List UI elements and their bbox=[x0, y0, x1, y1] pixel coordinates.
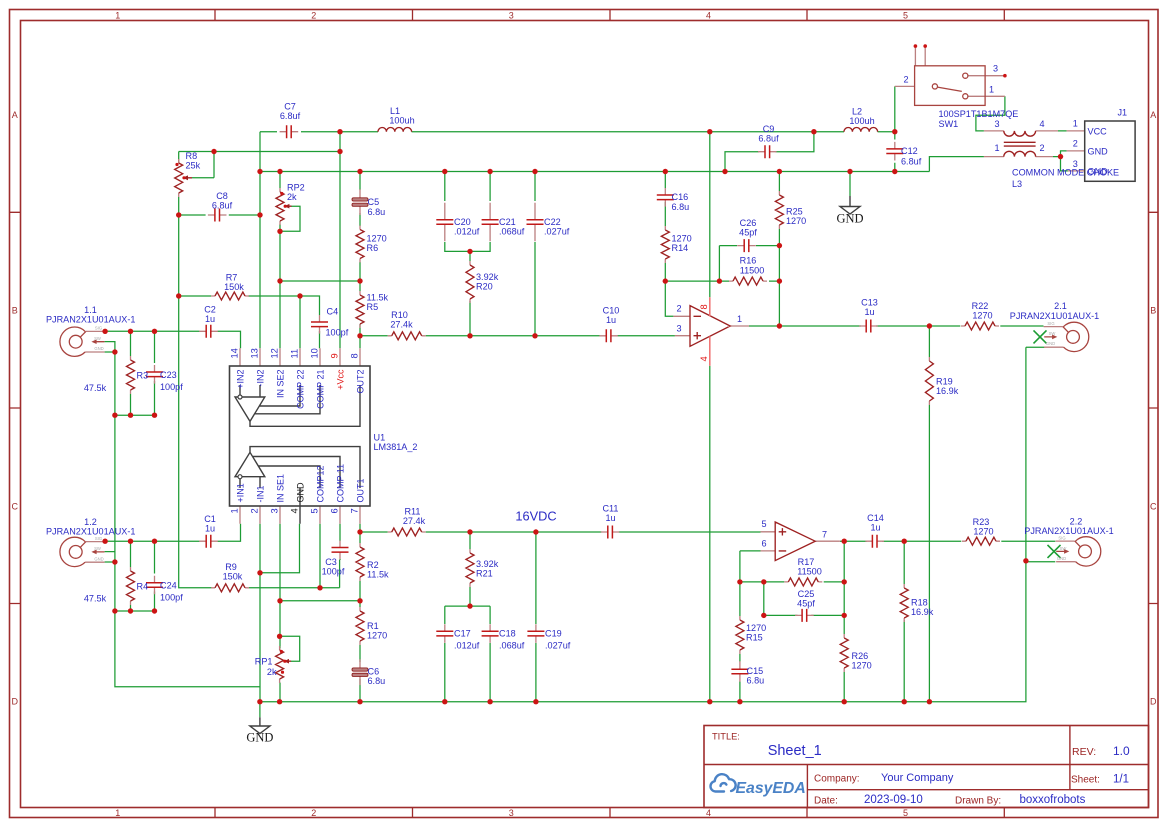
svg-text:1: 1 bbox=[115, 808, 120, 818]
svg-text:1270: 1270 bbox=[972, 311, 992, 321]
svg-text:2: 2 bbox=[676, 304, 681, 314]
svg-text:4: 4 bbox=[1039, 119, 1044, 129]
svg-text:4: 4 bbox=[699, 356, 709, 361]
svg-text:1u: 1u bbox=[870, 523, 880, 533]
svg-text:2023-09-10: 2023-09-10 bbox=[864, 794, 923, 806]
svg-text:L1: L1 bbox=[390, 106, 400, 116]
svg-text:C20: C20 bbox=[454, 217, 471, 227]
svg-text:3: 3 bbox=[676, 324, 681, 334]
svg-text:R5: R5 bbox=[367, 302, 379, 312]
svg-text:R7: R7 bbox=[226, 273, 238, 283]
svg-text:C18: C18 bbox=[499, 629, 516, 639]
svg-text:C3: C3 bbox=[325, 557, 337, 567]
svg-text:R20: R20 bbox=[476, 282, 493, 292]
svg-text:7: 7 bbox=[822, 529, 827, 539]
svg-text:.012uf: .012uf bbox=[454, 641, 480, 651]
svg-text:R14: R14 bbox=[672, 243, 689, 253]
svg-text:+Vcc: +Vcc bbox=[335, 369, 345, 390]
svg-text:C6: C6 bbox=[368, 667, 380, 677]
svg-text:2k: 2k bbox=[287, 192, 297, 202]
svg-text:C22: C22 bbox=[544, 217, 561, 227]
svg-text:GND: GND bbox=[1046, 341, 1055, 346]
svg-text:L3: L3 bbox=[1012, 179, 1022, 189]
svg-text:C1: C1 bbox=[204, 514, 216, 524]
svg-text:C19: C19 bbox=[545, 629, 562, 639]
svg-text:GND: GND bbox=[1088, 146, 1109, 156]
svg-text:1: 1 bbox=[1073, 119, 1078, 129]
svg-text:.027uf: .027uf bbox=[544, 227, 570, 237]
svg-text:6.8uf: 6.8uf bbox=[280, 111, 301, 121]
svg-text:C12: C12 bbox=[901, 146, 918, 156]
svg-text:5: 5 bbox=[903, 808, 908, 818]
svg-text:47.5k: 47.5k bbox=[84, 594, 107, 604]
svg-text:IN SE1: IN SE1 bbox=[275, 474, 285, 503]
svg-text:6.8u: 6.8u bbox=[747, 676, 765, 686]
svg-text:11.5k: 11.5k bbox=[367, 293, 389, 303]
svg-text:150k: 150k bbox=[223, 572, 243, 582]
svg-text:10: 10 bbox=[310, 348, 320, 358]
svg-text:16.9k: 16.9k bbox=[911, 607, 934, 617]
svg-text:1270: 1270 bbox=[367, 631, 387, 641]
svg-text:6.8u: 6.8u bbox=[368, 676, 386, 686]
svg-text:100pf: 100pf bbox=[322, 567, 345, 577]
svg-text:3: 3 bbox=[1073, 159, 1078, 169]
svg-text:3: 3 bbox=[509, 808, 514, 818]
svg-text:GND: GND bbox=[295, 482, 305, 503]
svg-text:45pf: 45pf bbox=[739, 228, 757, 238]
svg-text:COMP 21: COMP 21 bbox=[315, 370, 325, 409]
svg-text:+IN1: +IN1 bbox=[235, 483, 245, 502]
svg-text:R11: R11 bbox=[404, 507, 420, 517]
svg-text:R15: R15 bbox=[746, 633, 763, 643]
svg-text:C23: C23 bbox=[160, 370, 177, 380]
svg-text:5: 5 bbox=[310, 508, 320, 513]
svg-text:SIG: SIG bbox=[95, 326, 102, 331]
svg-text:C2: C2 bbox=[204, 305, 216, 315]
svg-text:GND: GND bbox=[836, 212, 863, 226]
svg-text:9: 9 bbox=[330, 353, 340, 358]
svg-text:1: 1 bbox=[989, 85, 994, 95]
svg-text:1.2: 1.2 bbox=[84, 517, 97, 527]
svg-text:A: A bbox=[12, 110, 18, 120]
svg-text:3: 3 bbox=[994, 119, 999, 129]
svg-text:VCC: VCC bbox=[1088, 126, 1108, 136]
svg-text:GND: GND bbox=[246, 731, 273, 745]
svg-text:2: 2 bbox=[311, 808, 316, 818]
svg-text:B: B bbox=[12, 306, 18, 316]
svg-text:2: 2 bbox=[903, 75, 908, 85]
svg-text:R19: R19 bbox=[936, 377, 953, 387]
svg-text:PJRAN2X1U01AUX-1: PJRAN2X1U01AUX-1 bbox=[1024, 526, 1113, 536]
svg-text:U1: U1 bbox=[374, 433, 386, 443]
svg-text:8: 8 bbox=[699, 304, 709, 309]
svg-text:L2: L2 bbox=[852, 107, 862, 117]
svg-text:.012uf: .012uf bbox=[454, 227, 480, 237]
svg-text:1270: 1270 bbox=[367, 234, 387, 244]
svg-text:3: 3 bbox=[993, 64, 998, 74]
svg-text:47.5k: 47.5k bbox=[84, 383, 107, 393]
svg-text:REV:: REV: bbox=[1072, 746, 1096, 758]
svg-text:D: D bbox=[1150, 697, 1157, 707]
svg-text:5: 5 bbox=[903, 10, 908, 20]
svg-text:Company:: Company: bbox=[814, 774, 860, 785]
svg-text:4: 4 bbox=[706, 808, 711, 818]
svg-text:R3: R3 bbox=[137, 371, 149, 381]
svg-text:8: 8 bbox=[350, 353, 360, 358]
svg-text:PJRAN2X1U01AUX-1: PJRAN2X1U01AUX-1 bbox=[1010, 311, 1099, 321]
svg-text:C: C bbox=[11, 502, 18, 512]
svg-text:11500: 11500 bbox=[797, 567, 822, 577]
svg-text:LM381A_2: LM381A_2 bbox=[374, 442, 418, 452]
svg-text:2.2: 2.2 bbox=[1070, 517, 1083, 527]
svg-text:2: 2 bbox=[311, 10, 316, 20]
svg-text:R22: R22 bbox=[972, 301, 989, 311]
svg-text:SIG: SIG bbox=[95, 536, 102, 541]
svg-text:1u: 1u bbox=[864, 307, 874, 317]
svg-text:GND: GND bbox=[94, 556, 103, 561]
svg-text:SW1: SW1 bbox=[939, 119, 959, 129]
svg-text:GND: GND bbox=[1088, 166, 1109, 176]
svg-text:A: A bbox=[1150, 110, 1156, 120]
svg-text:7: 7 bbox=[350, 508, 360, 513]
svg-text:6.8uf: 6.8uf bbox=[901, 157, 922, 167]
svg-text:+IN2: +IN2 bbox=[235, 370, 245, 389]
svg-text:J1: J1 bbox=[1118, 107, 1128, 117]
svg-text:C21: C21 bbox=[499, 217, 516, 227]
svg-text:R25: R25 bbox=[786, 207, 803, 217]
svg-text:IN SE2: IN SE2 bbox=[275, 370, 285, 399]
svg-text:C26: C26 bbox=[740, 218, 757, 228]
svg-text:25k: 25k bbox=[186, 161, 201, 171]
svg-text:3: 3 bbox=[270, 508, 280, 513]
svg-text:C4: C4 bbox=[327, 307, 339, 317]
svg-text:1: 1 bbox=[230, 508, 240, 513]
svg-text:R17: R17 bbox=[798, 557, 815, 567]
svg-text:3.92k: 3.92k bbox=[476, 272, 499, 282]
svg-text:6.8u: 6.8u bbox=[672, 202, 690, 212]
svg-text:SIG: SIG bbox=[1058, 536, 1065, 541]
svg-text:150k: 150k bbox=[224, 282, 244, 292]
svg-text:C8: C8 bbox=[216, 191, 228, 201]
svg-text:C15: C15 bbox=[747, 666, 764, 676]
svg-text:PJRAN2X1U01AUX-1: PJRAN2X1U01AUX-1 bbox=[46, 527, 135, 537]
svg-text:45pf: 45pf bbox=[797, 599, 815, 609]
svg-text:Sheet_1: Sheet_1 bbox=[768, 743, 822, 759]
svg-text:1u: 1u bbox=[205, 314, 215, 324]
svg-text:1u: 1u bbox=[205, 524, 215, 534]
svg-text:4: 4 bbox=[290, 508, 300, 513]
svg-text:R16: R16 bbox=[740, 256, 757, 266]
svg-text:1: 1 bbox=[737, 314, 742, 324]
svg-text:Your Company: Your Company bbox=[881, 772, 954, 784]
svg-text:C11: C11 bbox=[602, 504, 618, 514]
svg-text:6.8uf: 6.8uf bbox=[758, 134, 779, 144]
svg-text:R23: R23 bbox=[973, 517, 990, 527]
svg-text:R6: R6 bbox=[367, 243, 379, 253]
svg-text:OUT1: OUT1 bbox=[355, 478, 365, 502]
svg-text:R4: R4 bbox=[137, 582, 149, 592]
svg-text:C5: C5 bbox=[368, 197, 380, 207]
svg-text:SW: SW bbox=[94, 336, 101, 341]
svg-text:1/1: 1/1 bbox=[1113, 774, 1129, 786]
svg-text:COMP 11: COMP 11 bbox=[335, 464, 345, 503]
svg-text:100pf: 100pf bbox=[160, 593, 183, 603]
svg-text:1u: 1u bbox=[605, 513, 615, 523]
svg-text:1270: 1270 bbox=[672, 234, 692, 244]
svg-text:D: D bbox=[11, 697, 18, 707]
svg-text:100pf: 100pf bbox=[160, 382, 183, 392]
svg-text:3: 3 bbox=[509, 10, 514, 20]
svg-text:SIG: SIG bbox=[1047, 321, 1054, 326]
svg-text:2k: 2k bbox=[267, 667, 277, 677]
svg-text:13: 13 bbox=[250, 348, 260, 358]
svg-text:1u: 1u bbox=[606, 315, 616, 325]
svg-text:COMP 22: COMP 22 bbox=[295, 370, 305, 409]
svg-text:3.92k: 3.92k bbox=[476, 559, 499, 569]
svg-text:1: 1 bbox=[115, 10, 120, 20]
svg-text:1.1: 1.1 bbox=[84, 305, 97, 315]
svg-text:COMP12: COMP12 bbox=[315, 465, 325, 502]
svg-text:2: 2 bbox=[1073, 139, 1078, 149]
svg-text:Sheet:: Sheet: bbox=[1071, 775, 1100, 786]
svg-text:16.9k: 16.9k bbox=[936, 386, 959, 396]
svg-text:C: C bbox=[1150, 502, 1157, 512]
svg-text:B: B bbox=[1150, 306, 1156, 316]
svg-text:14: 14 bbox=[230, 348, 240, 358]
svg-text:RP2: RP2 bbox=[287, 183, 305, 193]
svg-text:R8: R8 bbox=[186, 151, 198, 161]
svg-text:100pf: 100pf bbox=[326, 328, 349, 338]
svg-text:100uh: 100uh bbox=[389, 116, 414, 126]
svg-text:2: 2 bbox=[1039, 143, 1044, 153]
svg-text:27.4k: 27.4k bbox=[403, 516, 426, 526]
svg-text:.068uf: .068uf bbox=[499, 641, 525, 651]
svg-text:-IN1: -IN1 bbox=[255, 485, 265, 502]
svg-text:11500: 11500 bbox=[740, 266, 765, 276]
svg-text:12: 12 bbox=[270, 348, 280, 358]
svg-text:C9: C9 bbox=[763, 124, 775, 134]
svg-text:4: 4 bbox=[706, 10, 711, 20]
svg-text:2: 2 bbox=[250, 508, 260, 513]
svg-text:R10: R10 bbox=[391, 310, 408, 320]
svg-text:C25: C25 bbox=[798, 589, 815, 599]
svg-text:C16: C16 bbox=[672, 192, 689, 202]
svg-text:11: 11 bbox=[290, 349, 300, 359]
svg-text:1270: 1270 bbox=[973, 527, 993, 537]
svg-text:TITLE:: TITLE: bbox=[712, 732, 740, 742]
svg-text:6.8u: 6.8u bbox=[368, 207, 386, 217]
svg-text:1270: 1270 bbox=[786, 216, 806, 226]
svg-text:Date:: Date: bbox=[814, 796, 838, 807]
svg-text:C24: C24 bbox=[160, 581, 177, 591]
svg-text:100SP1T1B1M7QE: 100SP1T1B1M7QE bbox=[939, 109, 1019, 119]
svg-text:EasyEDA: EasyEDA bbox=[736, 780, 806, 797]
svg-text:SW: SW bbox=[1060, 546, 1067, 551]
svg-text:R18: R18 bbox=[911, 598, 928, 608]
svg-text:27.4k: 27.4k bbox=[390, 319, 413, 329]
svg-text:1270: 1270 bbox=[746, 623, 766, 633]
svg-text:SW: SW bbox=[94, 546, 101, 551]
svg-text:1270: 1270 bbox=[852, 661, 872, 671]
svg-text:6: 6 bbox=[330, 508, 340, 513]
svg-text:6.8uf: 6.8uf bbox=[212, 201, 233, 211]
svg-text:C14: C14 bbox=[867, 513, 884, 523]
svg-text:RP1: RP1 bbox=[255, 657, 273, 667]
svg-text:-IN2: -IN2 bbox=[255, 370, 265, 387]
svg-text:C17: C17 bbox=[454, 629, 471, 639]
svg-text:2.1: 2.1 bbox=[1054, 301, 1067, 311]
svg-text:R2: R2 bbox=[367, 560, 379, 570]
svg-text:100uh: 100uh bbox=[849, 116, 874, 126]
svg-text:6: 6 bbox=[761, 539, 766, 549]
svg-text:1: 1 bbox=[994, 143, 999, 153]
svg-text:SW: SW bbox=[1049, 331, 1056, 336]
svg-text:C10: C10 bbox=[603, 306, 620, 316]
svg-text:boxxofrobots: boxxofrobots bbox=[1020, 794, 1086, 806]
svg-text:OUT2: OUT2 bbox=[355, 370, 365, 394]
svg-text:PJRAN2X1U01AUX-1: PJRAN2X1U01AUX-1 bbox=[46, 315, 135, 325]
svg-text:.068uf: .068uf bbox=[499, 227, 525, 237]
svg-text:R9: R9 bbox=[225, 562, 237, 572]
svg-text:R1: R1 bbox=[367, 621, 379, 631]
svg-text:R21: R21 bbox=[476, 569, 493, 579]
svg-text:R26: R26 bbox=[852, 651, 869, 661]
svg-text:GND: GND bbox=[1057, 556, 1066, 561]
svg-text:Drawn By:: Drawn By: bbox=[955, 796, 1001, 807]
svg-text:16VDC: 16VDC bbox=[515, 509, 556, 524]
svg-text:1.0: 1.0 bbox=[1113, 744, 1130, 758]
svg-text:5: 5 bbox=[761, 519, 766, 529]
svg-text:C13: C13 bbox=[861, 298, 878, 308]
svg-text:.027uf: .027uf bbox=[545, 641, 571, 651]
svg-text:11.5k: 11.5k bbox=[367, 570, 389, 580]
svg-text:C7: C7 bbox=[284, 102, 296, 112]
svg-text:GND: GND bbox=[94, 346, 103, 351]
